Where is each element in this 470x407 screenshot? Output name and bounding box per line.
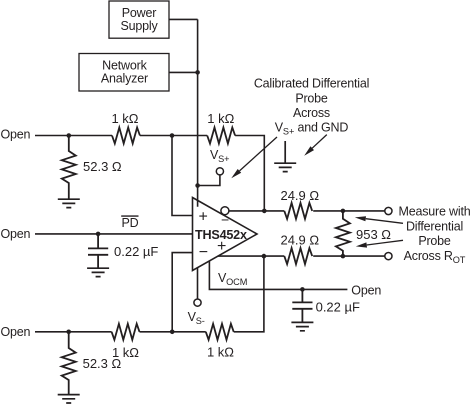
svg-text:PD: PD bbox=[122, 216, 139, 230]
junction: bottom feedback tap bbox=[170, 330, 175, 335]
svg-text:953 Ω: 953 Ω bbox=[356, 227, 391, 242]
terminal: VS+ open circle bbox=[216, 168, 223, 175]
svg-text:Open: Open bbox=[1, 128, 31, 142]
svg-text:Open: Open bbox=[1, 325, 31, 339]
ground: PD capacitor bbox=[87, 268, 109, 276]
box: Network Analyzer bbox=[79, 54, 169, 92]
junction: PD / capacitor bbox=[96, 232, 101, 237]
svg-text:1 kΩ: 1 kΩ bbox=[207, 111, 234, 126]
junction: top input / 52.3 bbox=[67, 133, 72, 138]
op-amp THS452x triangle bbox=[193, 198, 258, 271]
svg-text:Probe: Probe bbox=[295, 92, 328, 106]
svg-text:1 kΩ: 1 kΩ bbox=[207, 345, 234, 360]
svg-text:52.3 Ω: 52.3 Ω bbox=[83, 356, 122, 371]
svg-text:Calibrated Differential: Calibrated Differential bbox=[254, 76, 369, 90]
resistor 24.9 Ω top bbox=[284, 203, 312, 219]
resistor 1 kΩ top input bbox=[112, 128, 140, 144]
ground: bottom 52.3 bbox=[58, 395, 80, 403]
arrow: VS+ text to VS+ terminal bbox=[240, 137, 278, 171]
wire: VS+ supply rail vertical bbox=[197, 19, 199, 206]
junction: rail / network analyzer bbox=[195, 70, 200, 75]
junction: bottom input / 52.3 bbox=[66, 330, 71, 335]
wire: bottom input from Open bbox=[35, 331, 112, 333]
junction: rail / VS+ stub bbox=[195, 183, 200, 188]
wire: bottom feedback up to output node bbox=[234, 256, 264, 332]
ground: top 52.3 bbox=[58, 199, 80, 207]
wire: VS+ stub to open terminal bbox=[198, 175, 220, 186]
wire: top output to measure terminal bbox=[313, 210, 385, 212]
svg-text:−: − bbox=[221, 212, 229, 228]
resistor 1 kΩ bottom feedback bbox=[206, 324, 234, 340]
wire: top feedback to output node bbox=[235, 136, 264, 211]
wire: bottom feedback tap up to - input bbox=[172, 253, 192, 332]
wire: VOCM from op-amp to Open bbox=[209, 261, 347, 290]
resistor 24.9 Ω bottom bbox=[284, 248, 312, 264]
box: Power Supply bbox=[109, 1, 169, 38]
resistor 52.3 Ω bottom bbox=[62, 332, 76, 395]
wire: bottom output to measure terminal bbox=[313, 255, 385, 257]
svg-text:Differential: Differential bbox=[406, 219, 463, 233]
wire: top input to feedback tap bbox=[140, 135, 207, 137]
junction: VOCM / capacitor bbox=[300, 287, 305, 292]
resistor 52.3 Ω top bbox=[62, 136, 76, 200]
wire: power supply output to supply rail bbox=[169, 18, 198, 20]
svg-text:24.9 Ω: 24.9 Ω bbox=[280, 233, 319, 248]
junction: top output / 953 bbox=[341, 209, 346, 214]
resistor 1 kΩ bottom input bbox=[112, 324, 140, 340]
svg-text:−: − bbox=[199, 244, 208, 261]
svg-text:0.22 µF: 0.22 µF bbox=[316, 299, 360, 314]
terminal: VS- open circle bbox=[194, 299, 201, 306]
wire: bottom input to feedback tap bbox=[140, 331, 206, 333]
svg-text:Analyzer: Analyzer bbox=[101, 71, 148, 85]
wire: network analyzer output to supply rail bbox=[169, 71, 198, 73]
svg-text:Open: Open bbox=[1, 227, 31, 241]
resistor 1 kΩ top feedback bbox=[207, 128, 235, 144]
wire: top input from Open bbox=[35, 135, 112, 137]
wire: bottom output bbox=[218, 255, 284, 257]
arrow: measure text to 953 top bbox=[366, 219, 403, 224]
terminal: measure top open circle bbox=[385, 207, 392, 214]
svg-text:THS452x: THS452x bbox=[195, 228, 247, 242]
svg-text:0.22 µF: 0.22 µF bbox=[114, 244, 158, 259]
svg-text:Supply: Supply bbox=[120, 19, 158, 33]
junction: top feedback tap bbox=[170, 133, 175, 138]
wire: feedback tap down to + input bbox=[172, 136, 193, 216]
ground: calibrated probe reference bbox=[274, 141, 296, 172]
svg-text:Probe: Probe bbox=[418, 234, 451, 248]
svg-text:Measure with: Measure with bbox=[399, 204, 470, 218]
junction: bottom output / 953 bbox=[341, 254, 346, 259]
svg-text:1 kΩ: 1 kΩ bbox=[111, 111, 138, 126]
svg-text:+: + bbox=[199, 209, 208, 226]
resistor 953 Ω bbox=[336, 211, 350, 256]
wire: VS- stub bbox=[197, 268, 199, 299]
svg-text:52.3 Ω: 52.3 Ω bbox=[83, 159, 122, 174]
terminal: measure bottom open circle bbox=[385, 253, 392, 260]
svg-text:Open: Open bbox=[351, 283, 381, 297]
capacitor 0.22 µF on VOCM bbox=[292, 289, 312, 322]
arrow: GND text to ground symbol bbox=[312, 135, 327, 149]
arrow: measure text to 953 bottom bbox=[367, 240, 403, 245]
svg-text:24.9 Ω: 24.9 Ω bbox=[280, 188, 319, 203]
svg-text:Network: Network bbox=[102, 58, 147, 72]
wire: top output bbox=[229, 210, 284, 212]
ground: VOCM capacitor bbox=[291, 322, 313, 330]
terminal: output open circle on triangle edge bbox=[221, 207, 229, 215]
svg-text:Across: Across bbox=[293, 106, 330, 120]
junction: bottom output / feedback bbox=[262, 254, 267, 259]
capacitor 0.22 µF on PD bbox=[88, 234, 108, 268]
junction: top output / feedback bbox=[262, 209, 267, 214]
wire: PD input from Open bbox=[35, 233, 193, 235]
